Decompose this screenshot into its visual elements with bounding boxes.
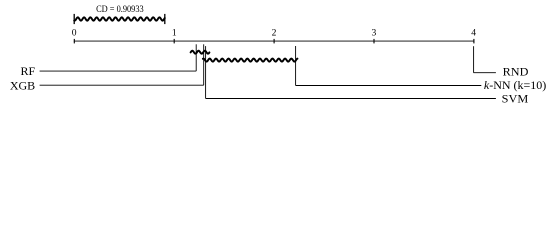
svg-text:4: 4 <box>471 28 476 39</box>
axis tick 3 <box>373 39 375 44</box>
CD bar left end tick <box>73 14 75 24</box>
kNN drop line <box>295 46 297 86</box>
CD bar wavy line <box>74 17 165 20</box>
svg-text:k-NN (k=10): k-NN (k=10) <box>484 78 546 92</box>
axis tick 0 <box>73 39 75 44</box>
RND connector line <box>474 72 496 74</box>
axis tick 2 <box>273 39 275 44</box>
clique 2 wavy line <box>203 59 298 62</box>
SVM connector line <box>206 98 496 100</box>
svg-text:SVM: SVM <box>502 91 529 105</box>
RF drop line <box>195 44 197 71</box>
critical difference diagram <box>0 0 550 109</box>
XGB drop line <box>203 44 205 85</box>
svg-text:CD = 0.90933: CD = 0.90933 <box>96 5 144 15</box>
svg-text:0: 0 <box>72 28 77 39</box>
axis tick 1 <box>173 39 175 44</box>
svg-text:RND: RND <box>503 65 529 79</box>
kNN connector line <box>296 85 482 87</box>
svg-text:RF: RF <box>21 64 36 78</box>
SVM drop line <box>205 46 207 98</box>
svg-text:XGB: XGB <box>10 79 35 93</box>
CD bar right end tick <box>164 14 166 24</box>
axis line <box>74 40 475 42</box>
svg-text:2: 2 <box>272 28 277 39</box>
XGB connector line <box>40 84 204 86</box>
RND drop line <box>473 46 475 72</box>
svg-text:1: 1 <box>172 28 177 39</box>
svg-text:3: 3 <box>372 28 377 39</box>
axis tick 4 <box>473 39 475 44</box>
RF connector line <box>40 70 197 72</box>
clique 1 wavy line <box>191 51 210 54</box>
